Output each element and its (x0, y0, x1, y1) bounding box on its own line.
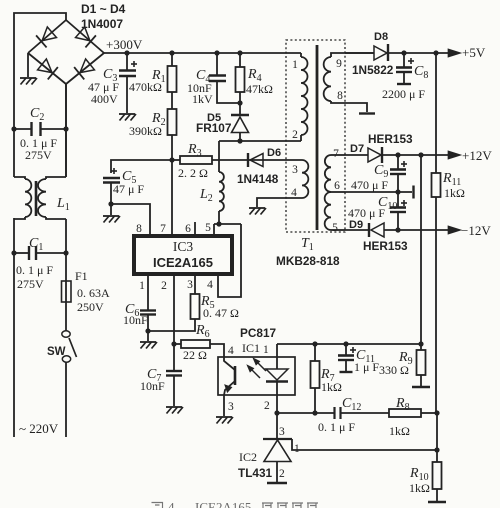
svg-text:IC2: IC2 (239, 450, 257, 464)
svg-text:IC1: IC1 (242, 341, 260, 355)
svg-text:250V: 250V (77, 300, 104, 314)
svg-text:1kV: 1kV (192, 92, 213, 106)
svg-text:1kΩ: 1kΩ (321, 380, 342, 394)
svg-text:+5V: +5V (462, 45, 486, 60)
svg-text:5: 5 (205, 222, 211, 234)
svg-text:T1: T1 (301, 236, 314, 253)
svg-text:3: 3 (279, 426, 285, 438)
svg-text:3: 3 (228, 401, 234, 413)
svg-text:7: 7 (333, 148, 339, 160)
svg-text:D6: D6 (267, 147, 281, 159)
svg-text:FR107: FR107 (196, 121, 232, 135)
svg-text:4: 4 (207, 279, 213, 291)
svg-text:0. 63A: 0. 63A (77, 286, 110, 300)
svg-text:2: 2 (264, 400, 270, 412)
svg-text:7: 7 (160, 223, 166, 235)
svg-text:3: 3 (292, 164, 298, 176)
svg-text:275V: 275V (17, 277, 44, 291)
svg-text:1: 1 (139, 280, 145, 292)
svg-text:ICE2A165: ICE2A165 (153, 255, 213, 270)
svg-text:9: 9 (336, 58, 342, 70)
svg-text:L1: L1 (56, 196, 70, 213)
svg-text:IC3: IC3 (173, 239, 194, 254)
svg-text:C1: C1 (29, 236, 43, 253)
svg-text:D8: D8 (374, 31, 388, 43)
svg-text:47kΩ: 47kΩ (246, 82, 273, 96)
svg-text:D1 ~ D4: D1 ~ D4 (81, 2, 126, 16)
svg-text:2. 2 Ω: 2. 2 Ω (178, 166, 208, 180)
svg-text:1kΩ: 1kΩ (389, 424, 410, 438)
svg-text:22 Ω: 22 Ω (183, 348, 207, 362)
svg-text:TL431: TL431 (238, 466, 273, 480)
svg-text:0. 1 μ F: 0. 1 μ F (318, 420, 355, 434)
svg-text:1: 1 (292, 59, 298, 71)
svg-text:1kΩ: 1kΩ (444, 186, 465, 200)
svg-text:470 μ F: 470 μ F (348, 206, 385, 220)
svg-text:+12V: +12V (462, 148, 492, 163)
svg-text:HER153: HER153 (368, 132, 413, 146)
svg-text:~ 220V: ~ 220V (19, 421, 59, 436)
svg-text:L2: L2 (199, 187, 213, 204)
svg-text:1kΩ: 1kΩ (409, 481, 430, 495)
svg-text:C8: C8 (414, 64, 428, 81)
svg-text:D9: D9 (349, 219, 363, 231)
svg-text:−12V: −12V (461, 223, 491, 238)
svg-text:470kΩ: 470kΩ (129, 80, 162, 94)
svg-text:390kΩ: 390kΩ (129, 124, 162, 138)
svg-text:10nF: 10nF (123, 313, 148, 327)
svg-text:R8: R8 (395, 396, 410, 413)
svg-text:ICE2A165: ICE2A165 (195, 500, 251, 508)
svg-text:1: 1 (263, 344, 269, 356)
svg-text:4: 4 (228, 345, 234, 357)
svg-text:F1: F1 (75, 269, 88, 283)
svg-text:10nF: 10nF (140, 379, 165, 393)
svg-text:2200 μ F: 2200 μ F (382, 87, 425, 101)
svg-text:D7: D7 (350, 143, 364, 155)
svg-text:5: 5 (332, 222, 338, 234)
svg-text:8: 8 (136, 223, 142, 235)
svg-text:1 μ F: 1 μ F (354, 360, 379, 374)
svg-text:MKB28-818: MKB28-818 (276, 254, 340, 268)
svg-text:PC817: PC817 (240, 326, 277, 340)
svg-text:47 μ F: 47 μ F (113, 182, 144, 196)
svg-text:4: 4 (168, 500, 175, 508)
svg-text:1N4007: 1N4007 (81, 17, 123, 31)
svg-text:C12: C12 (342, 396, 361, 413)
svg-text:SW: SW (47, 346, 66, 358)
svg-text:2: 2 (279, 468, 285, 480)
svg-text:0. 47 Ω: 0. 47 Ω (203, 306, 239, 320)
svg-text:6: 6 (334, 180, 340, 192)
svg-text:1N4148: 1N4148 (237, 172, 279, 186)
svg-text:3: 3 (187, 279, 193, 291)
svg-text:R6: R6 (195, 323, 210, 340)
svg-text:470 μ F: 470 μ F (351, 178, 388, 192)
svg-text:4: 4 (291, 187, 297, 199)
svg-text:1N5822: 1N5822 (352, 63, 394, 77)
svg-text:8: 8 (337, 90, 343, 102)
svg-text:330 Ω: 330 Ω (379, 363, 409, 377)
svg-text:1: 1 (294, 443, 300, 455)
svg-text:HER153: HER153 (363, 239, 408, 253)
svg-text:2: 2 (161, 280, 167, 292)
svg-text:R3: R3 (187, 142, 202, 159)
svg-text:2: 2 (292, 129, 298, 141)
svg-text:6: 6 (185, 223, 191, 235)
svg-text:400V: 400V (91, 92, 118, 106)
svg-text:0. 1 μ F: 0. 1 μ F (16, 263, 53, 277)
svg-text:275V: 275V (25, 148, 52, 162)
svg-text:C2: C2 (30, 106, 44, 123)
svg-text:+300V: +300V (106, 37, 143, 52)
